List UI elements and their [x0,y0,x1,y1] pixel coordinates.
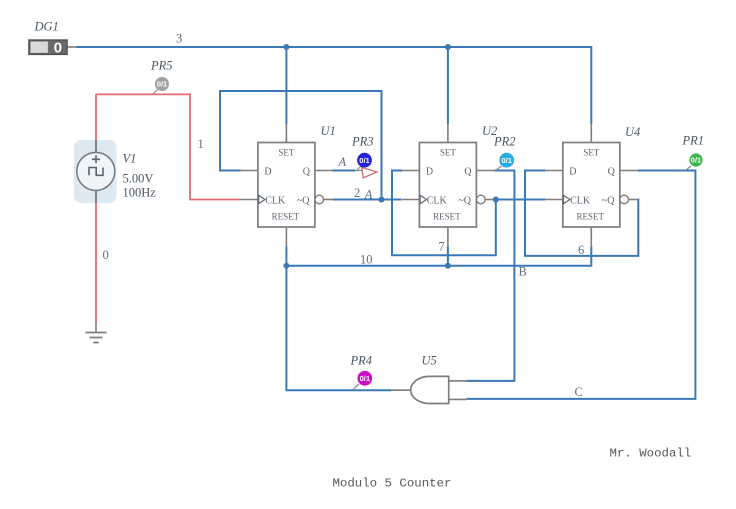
svg-text:2: 2 [354,186,360,200]
svg-text:~Q: ~Q [458,195,471,206]
svg-text:D: D [264,167,271,178]
wire net 10 (gate out to resets) [286,246,391,390]
probe PR3 [351,135,377,178]
svg-text:SET: SET [278,148,295,158]
ground [86,323,107,343]
svg-text:A: A [338,155,347,169]
svg-text:6: 6 [578,243,584,257]
flip-flop U4 [545,124,640,246]
svg-text:V1: V1 [123,152,137,166]
svg-text:~Q: ~Q [602,195,615,206]
svg-text:0: 0 [103,248,109,262]
wire U2 SET drop [447,47,449,124]
svg-text:PR1: PR1 [682,134,705,148]
svg-text:PR2: PR2 [493,135,516,149]
svg-text:0/1: 0/1 [501,156,511,165]
wire net C (U4 Q to gate) [467,171,696,399]
svg-text:U4: U4 [625,125,640,139]
wire net 3 top rail [77,46,592,48]
svg-text:A: A [364,188,373,202]
digital clock source DG1 [29,20,77,57]
probe PR2 [493,135,516,171]
svg-text:Q: Q [464,167,472,178]
junction net10 U1 [283,263,289,269]
svg-text:Mr. Woodall: Mr. Woodall [610,447,692,461]
svg-text:0/1: 0/1 [360,374,370,383]
svg-text:3: 3 [176,32,182,46]
wire U2 feedback net 7 (~Q to D) [392,171,496,256]
svg-text:RESET: RESET [272,212,300,222]
flip-flop U1 [241,124,336,246]
svg-text:DG1: DG1 [34,20,59,34]
svg-text:0/1: 0/1 [359,156,369,165]
junction U2 feedback on ~Q [493,197,499,203]
wire U1 feedback (~Q to D) [220,91,382,200]
svg-text:CLK: CLK [265,195,286,206]
svg-text:0/1: 0/1 [157,80,167,89]
svg-text:Q: Q [608,167,616,178]
wire U4 feedback net 6 (~Q to D) [525,171,638,256]
flip-flop U2 [402,124,497,246]
svg-text:PR5: PR5 [150,59,173,73]
svg-text:Modulo 5 Counter: Modulo 5 Counter [333,477,452,491]
AND gate U5 (mirrored) [391,354,466,404]
wire U1 Q (net A) [333,170,355,172]
junction rail-U1 [283,44,289,50]
svg-text:SET: SET [583,148,600,158]
wire net 10 horizontal [286,246,591,266]
wire net 1 (V1 to U1 CLK, red) [96,94,241,199]
wire net 2 (U1 ~Q to U2 CLK) [333,199,402,201]
svg-text:RESET: RESET [577,212,605,222]
voltage source V1 [74,140,156,203]
svg-text:Q: Q [303,167,311,178]
probe PR5 [150,59,173,95]
probe PR1 [682,134,705,171]
svg-text:CLK: CLK [427,195,448,206]
svg-text:U1: U1 [321,124,336,138]
svg-text:~Q: ~Q [297,195,310,206]
svg-text:1: 1 [198,137,204,151]
wire U2 reset drop [447,246,449,266]
svg-text:D: D [426,167,433,178]
svg-text:5.00V: 5.00V [123,172,154,186]
wire net 0 (V1 to ground, red) [95,203,97,323]
junction U1 feedback on net 2 [379,197,385,203]
svg-text:0: 0 [54,40,62,57]
svg-text:PR4: PR4 [350,354,373,368]
junction rail-U2 [445,44,451,50]
junction net10 U2 [445,263,451,269]
svg-text:PR3: PR3 [351,135,374,149]
svg-text:D: D [569,167,576,178]
probe PR4 [350,354,373,390]
svg-text:7: 7 [439,240,445,254]
svg-text:10: 10 [360,253,373,267]
svg-text:C: C [575,385,583,399]
wire U4 SET drop [590,46,592,124]
svg-text:SET: SET [440,148,457,158]
svg-text:RESET: RESET [433,212,461,222]
wire net B vertical (U2 Q to gate) [467,171,515,381]
svg-text:0/1: 0/1 [691,156,701,165]
svg-text:CLK: CLK [570,195,591,206]
wire U2 ~Q to U4 CLK [495,199,546,201]
wire U1 SET drop [285,47,287,124]
svg-text:100Hz: 100Hz [123,186,157,200]
svg-text:U5: U5 [422,354,437,368]
